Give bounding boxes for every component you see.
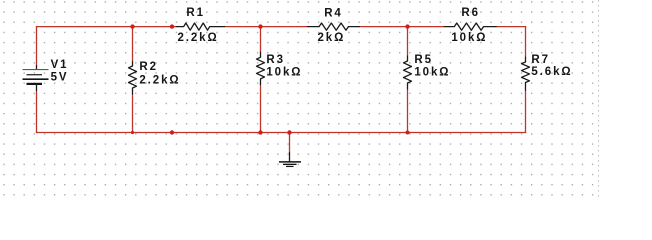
wire bottom rail — [36, 132, 526, 134]
wire R3 top — [260, 27, 262, 52]
node R5 top junction — [405, 24, 409, 28]
svg-text:5V: 5V — [51, 72, 69, 84]
node R1 left pin — [170, 24, 174, 28]
wire top: R6 right to top-right corner — [496, 26, 526, 28]
wire R7 bottom — [525, 90, 527, 133]
wire left rail upper — [36, 26, 38, 65]
wire left rail lower — [36, 91, 38, 133]
label R3 10k — [266, 54, 302, 78]
wire R2 top — [132, 27, 134, 62]
battery V1 5V — [23, 65, 49, 91]
node ground junction — [287, 130, 291, 134]
wire top: R1 right to node B — [225, 26, 308, 28]
resistor R4 — [308, 23, 360, 30]
svg-text:2.2kΩ: 2.2kΩ — [178, 32, 219, 44]
label R5 10k — [414, 54, 450, 78]
svg-text:10kΩ: 10kΩ — [266, 67, 302, 79]
node R5 bottom junction — [406, 131, 410, 135]
wire R5 top — [407, 27, 409, 56]
svg-text:R3: R3 — [266, 54, 285, 66]
svg-text:R7: R7 — [531, 54, 550, 66]
label R7 5.6k — [531, 54, 572, 78]
svg-text:R4: R4 — [324, 8, 343, 20]
wire R5 bottom — [407, 89, 409, 133]
wire right rail upper — [525, 26, 527, 57]
node R2 top junction — [130, 24, 134, 28]
label R4 2k — [318, 8, 346, 45]
svg-text:10kΩ: 10kΩ — [414, 67, 450, 79]
label R6 10k — [451, 7, 487, 44]
resistor R1 — [177, 23, 225, 30]
node R2 bottom junction — [131, 131, 134, 134]
svg-text:R5: R5 — [414, 54, 433, 66]
svg-text:R1: R1 — [186, 7, 205, 19]
resistor R3 — [257, 52, 265, 85]
svg-text:R6: R6 — [461, 7, 480, 19]
svg-text:V1: V1 — [51, 59, 69, 71]
wire ground stub — [289, 133, 291, 153]
resistor R5 — [404, 56, 412, 89]
svg-text:5.6kΩ: 5.6kΩ — [531, 66, 572, 78]
resistor R7 — [522, 57, 530, 90]
svg-text:10kΩ: 10kΩ — [451, 32, 487, 44]
ground — [279, 152, 301, 166]
label V1 — [51, 59, 69, 83]
svg-text:R2: R2 — [139, 61, 158, 73]
svg-text:2.2kΩ: 2.2kΩ — [139, 74, 180, 86]
resistor R6 — [444, 23, 496, 30]
node bottom rail junction — [170, 130, 174, 134]
label R2 2.2k — [139, 61, 180, 86]
label R1 2.2k — [178, 7, 219, 44]
node R3 top junction — [258, 24, 262, 28]
wire R3 bottom — [260, 85, 262, 133]
resistor R2 — [129, 62, 137, 94]
wire top: node A to R1 left — [36, 26, 177, 28]
node R3 bottom junction — [258, 130, 262, 134]
svg-text:2kΩ: 2kΩ — [318, 32, 346, 44]
wire R2 bottom — [132, 94, 134, 133]
wire top: R4 right to node C — [359, 26, 444, 28]
